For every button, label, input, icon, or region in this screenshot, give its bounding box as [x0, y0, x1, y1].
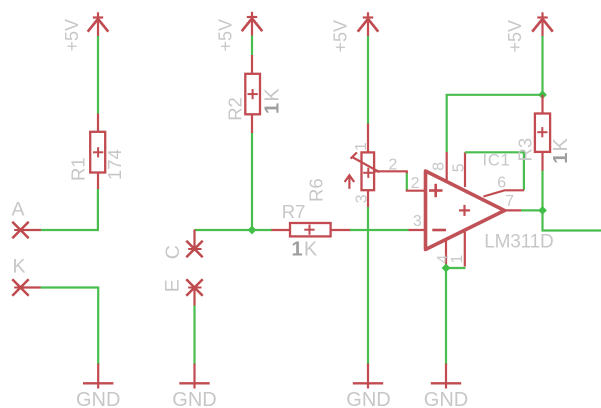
svg-text:7: 7: [505, 193, 514, 210]
resistor R2: [245, 74, 260, 115]
pin A lead: [21, 229, 41, 231]
op-amp plus input mark: [429, 184, 443, 197]
svg-text:+5V: +5V: [216, 19, 236, 52]
wire +5V to R6: [367, 36, 369, 124]
resistor R7: [290, 223, 331, 236]
trimpot R6 pin 1 lead: [367, 124, 369, 153]
resistor R7 right lead: [331, 229, 351, 231]
wire R7 to op-amp pin 3: [350, 229, 409, 231]
svg-text:LM311D: LM311D: [484, 231, 553, 252]
svg-text:1: 1: [353, 142, 370, 151]
resistor R3 bottom lead: [541, 152, 543, 171]
wire R3 to output junction: [541, 171, 543, 211]
svg-text:+5V: +5V: [62, 19, 82, 52]
ground GND 2: [179, 364, 209, 389]
svg-text:1K: 1K: [262, 87, 284, 114]
wire junction to R7: [252, 229, 272, 231]
svg-text:A: A: [12, 198, 25, 220]
svg-text:174: 174: [104, 149, 125, 180]
trimpot R6 pin 3 lead: [367, 190, 369, 207]
svg-text:R6: R6: [306, 178, 327, 202]
svg-text:3: 3: [413, 213, 422, 230]
junction node (R2/C/R7): [248, 226, 257, 235]
wire wiper to op-amp pin 2: [406, 173, 408, 190]
svg-text:3: 3: [353, 194, 370, 203]
trimpot R6 adjust arrow: [345, 175, 355, 189]
supply +5V symbol 2 (net to R2): [242, 12, 263, 36]
wire pin 7 to output junction: [521, 209, 543, 211]
wire +5V to R2: [251, 36, 253, 56]
junction node (+5V rail / R3): [538, 90, 547, 99]
wire K to GND: [41, 288, 99, 366]
svg-text:1K: 1K: [550, 137, 572, 164]
pin K lead: [21, 286, 41, 288]
wire pin 4 to GND: [445, 268, 447, 365]
trimpot R6: [351, 152, 380, 190]
svg-text:R7: R7: [282, 201, 306, 222]
pin C lead: [193, 230, 195, 250]
svg-text:GND: GND: [76, 389, 120, 408]
svg-text:R1: R1: [68, 157, 89, 181]
supply +5V symbol 1 (net to R1): [88, 12, 109, 36]
op-amp minus input mark: [432, 229, 446, 232]
op-amp IC1 pin 3 lead: [409, 229, 426, 231]
wire E to GND: [193, 306, 195, 366]
wire pin 1 to pin 4 junction: [446, 267, 466, 269]
pin C cross: [186, 241, 202, 257]
resistor R3: [535, 114, 550, 152]
svg-text:C: C: [162, 245, 184, 259]
op-amp pin 6 lead: [484, 190, 525, 196]
svg-text:8: 8: [431, 162, 448, 171]
svg-text:GND: GND: [172, 389, 216, 408]
R6 wiper lead to corner: [375, 171, 407, 174]
resistor R1 top lead: [97, 114, 99, 132]
pin E lead: [193, 288, 195, 307]
svg-text:IC1: IC1: [483, 152, 511, 170]
wire R1 to A: [41, 189, 98, 230]
op-amp pin 4 lead: [445, 239, 447, 265]
op-amp pin 7 lead: [505, 209, 522, 211]
svg-text:K: K: [13, 256, 26, 278]
wire +5V to rail junction: [541, 36, 543, 95]
pin E cross: [186, 279, 202, 295]
svg-text:R2: R2: [225, 97, 246, 121]
pin K cross: [12, 279, 28, 295]
svg-text:2: 2: [411, 175, 420, 192]
svg-text:5: 5: [451, 163, 468, 172]
resistor R2 bottom lead: [251, 114, 253, 133]
svg-text:R3: R3: [514, 138, 535, 162]
resistor R7 left lead: [272, 229, 291, 231]
svg-text:+5V: +5V: [331, 20, 351, 53]
wire pin 5 to pin 6: [465, 152, 524, 190]
op-amp pin 1 lead: [464, 232, 466, 267]
svg-text:E: E: [162, 279, 184, 292]
supply +5V symbol 3 (net to R6): [358, 12, 379, 36]
wire C to junction: [195, 229, 253, 231]
ground GND 3: [353, 364, 383, 389]
resistor R2 top lead: [251, 55, 253, 74]
svg-text:+5V: +5V: [505, 20, 525, 53]
op-amp IC1 triangle: [426, 171, 505, 250]
wire R6 pin3 to GND: [367, 207, 369, 365]
op-amp center plus mark: [459, 205, 470, 216]
resistor R1: [90, 132, 105, 173]
op-amp pin 5 lead: [464, 152, 466, 187]
wire pin 8 to +5V rail: [447, 95, 543, 152]
supply +5V symbol 4 (net to R3): [532, 12, 553, 36]
resistor R3 top lead: [541, 95, 543, 114]
svg-text:1K: 1K: [292, 239, 319, 261]
junction node (output): [538, 206, 547, 215]
ground GND 1: [83, 364, 113, 389]
pin A cross: [12, 222, 28, 238]
wire +5V to R1: [97, 36, 99, 114]
ground GND 4: [431, 364, 461, 389]
wire output to right edge: [543, 210, 601, 230]
resistor R1 bottom lead: [97, 173, 99, 190]
svg-text:1: 1: [449, 255, 466, 264]
svg-text:GND: GND: [424, 389, 468, 408]
junction node (pins 4/1): [442, 264, 451, 273]
op-amp pin 8 lead: [446, 152, 448, 182]
svg-text:6: 6: [497, 175, 506, 192]
wire R2 to junction: [251, 133, 253, 230]
svg-text:GND: GND: [346, 389, 390, 408]
op-amp IC1 pin 2 lead: [407, 190, 426, 191]
